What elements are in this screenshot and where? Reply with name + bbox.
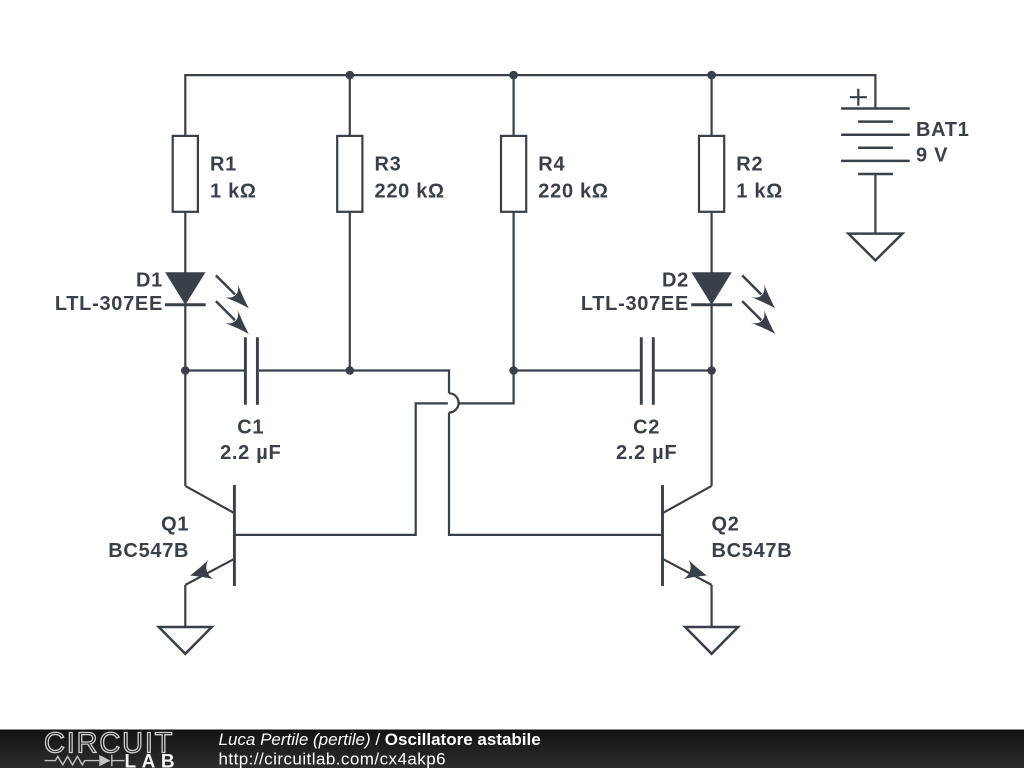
- wire R4 bottom: [512, 212, 514, 371]
- transistor Q1: [185, 485, 234, 586]
- footer logo wire resistor diode: [45, 755, 125, 766]
- ground Q1: [159, 627, 212, 654]
- node dot R2 top: [707, 71, 716, 80]
- LED D2: [691, 273, 781, 370]
- wire top supply rail: [185, 75, 875, 136]
- wire R2 to D2: [710, 212, 712, 273]
- svg-text:Q1: Q1: [161, 514, 189, 536]
- svg-text:9 V: 9 V: [916, 145, 948, 167]
- svg-text:BAT1: BAT1: [916, 119, 970, 141]
- node dot R4 top: [509, 71, 518, 80]
- svg-text:C2: C2: [633, 417, 660, 439]
- wire Q1 emitter to ground: [184, 585, 186, 627]
- LED D1: [165, 273, 255, 370]
- transistor Q2: [663, 485, 712, 586]
- resistor R2: [699, 136, 724, 212]
- wire mid rail right: [514, 369, 640, 371]
- wire mid rail left: [185, 369, 244, 371]
- svg-text:1 kΩ: 1 kΩ: [210, 180, 257, 202]
- wire R4 node down: [459, 371, 514, 404]
- svg-text:BC547B: BC547B: [712, 540, 793, 562]
- svg-text:1 kΩ: 1 kΩ: [736, 180, 783, 202]
- svg-text:R2: R2: [736, 154, 763, 176]
- wire Q2 emitter to ground: [710, 585, 712, 627]
- capacitor C2: [641, 337, 653, 404]
- footer bar: [0, 730, 1024, 768]
- node dot D2 cathode: [707, 366, 716, 375]
- battery BAT1: [841, 89, 910, 174]
- svg-text:BC547B: BC547B: [108, 540, 189, 562]
- wire R2 top: [710, 75, 712, 136]
- node dot R3 top: [346, 71, 355, 80]
- resistor R1: [173, 136, 198, 212]
- svg-text:220 kΩ: 220 kΩ: [375, 180, 445, 202]
- wire R1 to D1: [184, 212, 186, 273]
- ground Q2: [685, 627, 738, 654]
- wire R4 top: [512, 75, 514, 136]
- svg-text:http://circuitlab.com/cx4akp6: http://circuitlab.com/cx4akp6: [219, 750, 447, 768]
- ground battery: [848, 234, 902, 261]
- svg-text:2.2 µF: 2.2 µF: [220, 442, 281, 464]
- wire battery to ground: [874, 174, 876, 234]
- wire cross to Q1 base: [234, 403, 448, 535]
- wire Q2 collector: [710, 371, 712, 486]
- svg-text:R4: R4: [538, 154, 565, 176]
- wire C2 to D2 node: [655, 369, 712, 371]
- wire R3 bottom: [349, 212, 351, 371]
- resistor R3: [337, 136, 362, 212]
- wire cross to Q2 base: [449, 413, 663, 535]
- svg-text:LTL-307EE: LTL-307EE: [55, 293, 163, 315]
- svg-text:R3: R3: [375, 154, 402, 176]
- svg-text:D2: D2: [662, 270, 689, 292]
- svg-text:LAB: LAB: [125, 751, 181, 768]
- svg-text:R1: R1: [210, 154, 237, 176]
- svg-text:Luca Pertile (pertile) / Oscil: Luca Pertile (pertile) / Oscillatore ast…: [219, 730, 541, 749]
- wire mid rail center: [259, 371, 449, 394]
- node dot R3 bottom: [346, 366, 355, 375]
- node dot R4 bottom: [509, 366, 518, 375]
- wire hop over: [449, 393, 459, 412]
- svg-text:Q2: Q2: [712, 514, 740, 536]
- svg-text:2.2 µF: 2.2 µF: [616, 442, 677, 464]
- svg-text:C1: C1: [237, 417, 264, 439]
- capacitor C1: [245, 337, 257, 404]
- wire R3 top: [349, 75, 351, 136]
- wire Q1 collector: [184, 371, 186, 486]
- resistor R4: [501, 136, 526, 212]
- node dot D1 cathode: [181, 366, 190, 375]
- svg-text:LTL-307EE: LTL-307EE: [581, 293, 689, 315]
- svg-text:220 kΩ: 220 kΩ: [538, 180, 608, 202]
- svg-text:D1: D1: [136, 270, 163, 292]
